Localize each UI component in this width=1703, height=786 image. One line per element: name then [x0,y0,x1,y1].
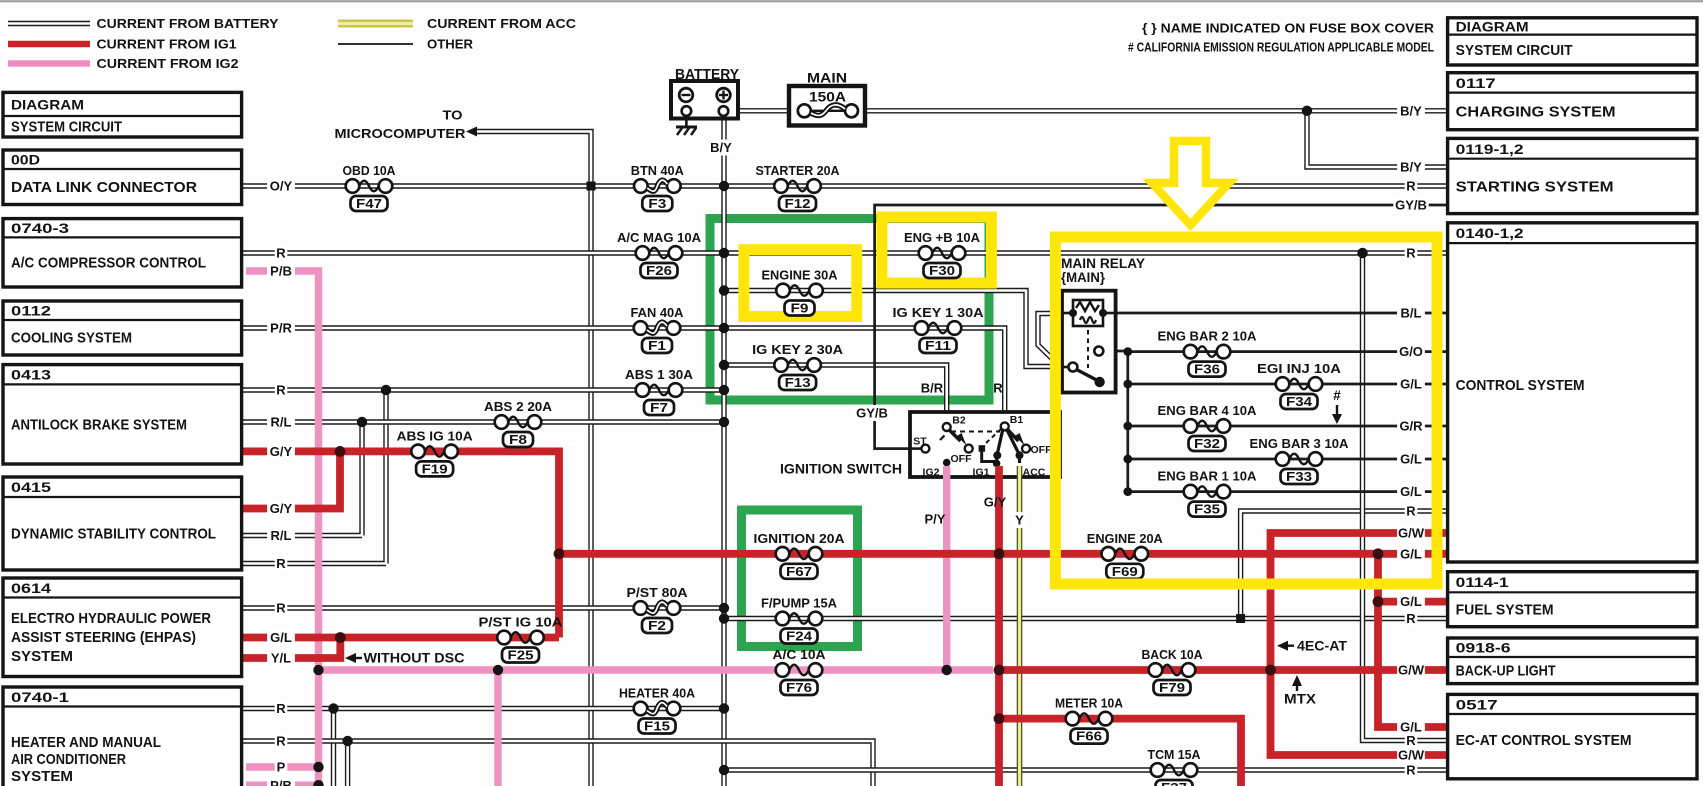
wire F/PUMP - R fuel (y=618.5) [724,616,1448,621]
svg-text:R: R [1406,733,1416,748]
svg-text:IG KEY 1 30A: IG KEY 1 30A [893,305,985,320]
box DIAGRAM / SYSTEM CIRCUIT right [1448,18,1697,65]
svg-text:IG2: IG2 [923,467,940,479]
fuse F1 FAN 40A [631,305,685,353]
junction R fuel/control [1236,614,1245,623]
svg-text:F79: F79 [1159,680,1185,695]
fuse F7 ABS 1 30A [625,367,694,415]
svg-text:F37: F37 [1161,780,1187,786]
svg-text:F2: F2 [648,618,666,633]
svg-text:EGI INJ 10A: EGI INJ 10A [1257,361,1342,376]
fuse F35 ENG BAR 1 10A [1158,469,1258,517]
yellow highlight box ENGINE 30A [744,250,857,317]
svg-text:F66: F66 [1076,729,1102,744]
wire GY/B starter signal [875,205,1448,449]
svg-text:TCM 15A: TCM 15A [1148,747,1202,762]
fuse F30 ENG +B 10A [904,230,981,278]
junction B/Y charging branch [1302,106,1312,116]
svg-text:WITHOUT DSC: WITHOUT DSC [364,651,465,666]
svg-text:P/ST 80A: P/ST 80A [627,585,689,600]
wire P/B from A/C compressor control, vertical x=318.5 [246,271,319,786]
wire pink bus y=670 [319,666,994,673]
wire MAIN fuse to charging B/Y [865,108,1448,113]
wire R to EC-AT via x=1362.5 [1363,253,1448,741]
ground [676,116,697,135]
svg-text:F30: F30 [929,263,955,278]
svg-text:F9: F9 [791,301,809,316]
svg-text:METER 10A: METER 10A [1055,696,1124,711]
right wire labels [1397,103,1425,119]
svg-text:AIR CONDITIONER: AIR CONDITIONER [11,751,126,768]
svg-text:MAIN: MAIN [807,70,847,86]
box 0614 EHPAS SYSTEM [3,578,242,677]
junction R heater branch [328,703,338,713]
green highlight box (ENGINE 30A / IG KEY group) [710,219,989,401]
wire Y/L EHPAS [243,638,340,659]
wire main relay B/L output [1103,312,1448,315]
svg-text:R: R [276,246,286,261]
svg-text:FAN 40A: FAN 40A [631,305,685,320]
fuse F15 HEATER 40A [619,686,696,734]
wire battery to MAIN fuse [738,108,789,113]
box 0517 EC-AT CONTROL SYSTEM [1448,694,1697,778]
label WITHOUT DSC with arrow [345,653,356,663]
svg-text:ASSIST STEERING (EHPAS): ASSIST STEERING (EHPAS) [11,629,196,646]
svg-text:P/B: P/B [270,778,292,786]
yellow highlight box ENG +B [882,217,992,283]
svg-text:P: P [277,760,286,775]
wire G/L EHPAS - P/ST IG [243,634,559,642]
svg-text:ENG BAR 2 10A: ENG BAR 2 10A [1158,329,1258,344]
yellow arrow [1152,141,1229,225]
svg-text:A/C MAG 10A: A/C MAG 10A [617,230,702,245]
wire TCM - R EC-AT (y=770) [724,767,1448,772]
wire G/L net x=1378 [1378,554,1448,727]
svg-text:R: R [1406,246,1416,261]
svg-text:P/B: P/B [270,264,292,279]
wire IG1 bus y=553.8 to G/L control [559,550,1448,558]
svg-text:ELECTRO HYDRAULIC POWER: ELECTRO HYDRAULIC POWER [11,610,211,627]
svg-text:GY/B: GY/B [856,406,888,421]
green highlight box (IGNITION / F-PUMP group) [742,510,858,647]
svg-text:P/ST IG 10A: P/ST IG 10A [479,615,564,630]
label 4EC-AT with arrow [1277,641,1288,651]
svg-text:0140-1,2: 0140-1,2 [1456,225,1524,241]
junction R/L to DSC [357,417,367,427]
dashed link B2-B1 [951,431,1000,433]
svg-text:GY/B: GY/B [1395,198,1427,213]
svg-text:IG1: IG1 [973,467,990,479]
wire P/R - FAN - IG KEY 1 - B1 [243,328,1005,422]
wire R/L - ABS 2 (y=422) [243,419,724,424]
lever B1 to IG1 [998,429,1004,454]
svg-text:BACK 10A: BACK 10A [1142,647,1204,662]
label MTX with arrow [1292,675,1302,686]
svg-text:OTHER: OTHER [427,37,474,52]
svg-text:F/PUMP 15A: F/PUMP 15A [761,596,838,611]
svg-text:F3: F3 [648,196,666,211]
svg-text:ENGINE 30A: ENGINE 30A [762,268,839,283]
svg-text:MTX: MTX [1284,692,1316,707]
fuse F66 METER 10A [1055,696,1124,744]
svg-text:Y: Y [1015,513,1024,528]
wire TO MICROCOMPUTER branch [476,132,591,786]
box 0112 COOLING SYSTEM [3,301,242,355]
svg-text:DIAGRAM: DIAGRAM [11,96,84,112]
svg-text:EC-AT CONTROL SYSTEM: EC-AT CONTROL SYSTEM [1456,732,1632,749]
legend current from IG2 [8,60,90,67]
svg-text:IGNITION 20A: IGNITION 20A [754,531,846,546]
svg-text:0740-1: 0740-1 [11,689,69,705]
svg-text:F13: F13 [785,375,811,390]
wire IG1 from ignition switch x=999 [995,466,1003,786]
svg-text:IGNITION SWITCH: IGNITION SWITCH [780,461,902,477]
wire main relay coil feed [1038,314,1060,364]
box 0114-1 FUEL SYSTEM [1448,572,1697,627]
terminal IG2 [943,459,951,467]
wire R branch down x=333.5 [331,709,336,786]
terminal B1 [1001,422,1009,430]
terminal ST [910,447,921,450]
svg-text:SYSTEM: SYSTEM [11,768,73,785]
wire ENG BAR 4 - G/R [1128,425,1448,428]
svg-text:G/L: G/L [1400,452,1422,467]
yellow highlight box control group [1055,237,1437,584]
svg-text:F36: F36 [1194,362,1220,377]
terminal IG1 [993,460,1001,468]
svg-text:ST: ST [913,436,927,448]
svg-text:0918-6: 0918-6 [1456,640,1511,656]
svg-text:BACK-UP LIGHT: BACK-UP LIGHT [1456,663,1556,680]
svg-text:A/C COMPRESSOR CONTROL: A/C COMPRESSOR CONTROL [11,254,206,271]
svg-text:G/Y: G/Y [270,444,293,459]
svg-text:G/L: G/L [1400,484,1422,499]
svg-text:G/O: G/O [1399,344,1423,359]
junction dots on B/Y bus [719,181,729,191]
wire G/W net x=1270.5 [1271,533,1448,755]
svg-text:ANTILOCK BRAKE SYSTEM: ANTILOCK BRAKE SYSTEM [11,416,187,433]
svg-text:MICROCOMPUTER: MICROCOMPUTER [335,126,467,141]
wire R branch to DSC [243,390,386,564]
svg-text:ABS 2 20A: ABS 2 20A [484,399,553,414]
box 0918-6 BACK-UP LIGHT [1448,638,1697,684]
junction dots red [335,446,346,457]
fuse F26 A/C MAG 10A [617,230,702,278]
legend current from ACC [338,20,413,28]
svg-text:0413: 0413 [11,367,51,383]
wire R - ABS 1 (y=390) [243,387,724,392]
svg-text:G/L: G/L [270,630,292,645]
svg-text:DIAGRAM: DIAGRAM [1456,18,1529,34]
svg-text:STARTING SYSTEM: STARTING SYSTEM [1456,178,1614,195]
fuse F3 BTN 40A [631,163,685,211]
svg-text:0740-3: 0740-3 [11,220,69,236]
wire R branch to control (x=1240.6) [1241,511,1448,619]
relay MAIN RELAY [1061,256,1145,393]
svg-text:MAIN RELAY: MAIN RELAY [1061,256,1145,271]
svg-text:F34: F34 [1286,394,1313,409]
svg-text:F19: F19 [422,461,448,476]
box 0117 CHARGING SYSTEM [1448,73,1697,130]
svg-text:CURRENT FROM BATTERY: CURRENT FROM BATTERY [97,16,279,31]
box 0140-1,2 CONTROL SYSTEM [1448,223,1697,562]
svg-text:O/Y: O/Y [270,179,293,194]
svg-text:F69: F69 [1112,564,1138,579]
svg-text:R: R [1406,179,1416,194]
svg-text:ABS 1 30A: ABS 1 30A [625,367,694,382]
svg-text:0517: 0517 [1456,696,1498,712]
wire O/Y - OBD - BTN - STARTER - R (y=186) [243,183,1448,188]
svg-text:F8: F8 [509,432,527,447]
svg-text:0119-1,2: 0119-1,2 [1456,141,1524,157]
svg-text:ENG BAR 4 10A: ENG BAR 4 10A [1158,403,1258,418]
terminal B2 [943,423,951,431]
svg-text:HEATER AND MANUAL: HEATER AND MANUAL [11,734,161,751]
svg-text:G/Y: G/Y [984,495,1007,510]
box 00D DATA LINK CONNECTOR [3,150,242,205]
svg-text:BTN 40A: BTN 40A [631,163,685,178]
box 0740-3 A/C COMPRESSOR CONTROL [3,219,242,287]
svg-text:F12: F12 [785,196,811,211]
svg-text:CURRENT FROM ACC: CURRENT FROM ACC [427,16,577,31]
svg-text:G/L: G/L [1400,546,1422,561]
svg-text:F76: F76 [786,680,812,695]
wire G/Y branch to DSC [243,451,340,508]
battery [671,66,739,119]
svg-text:F25: F25 [508,648,534,663]
wire P stub [246,763,319,770]
svg-text:IG KEY 2 30A: IG KEY 2 30A [752,342,844,357]
fuse F34 EGI INJ 10A [1257,361,1342,409]
svg-text:ABS IG 10A: ABS IG 10A [397,429,474,444]
svg-text:F15: F15 [644,719,670,734]
wire R/L branch to DSC [243,422,362,536]
fuse F67 IGNITION 20A [754,531,846,579]
svg-text:ACC: ACC [1023,467,1046,479]
wire ENG BAR 2 - G/O [1128,350,1448,353]
fuse F36 ENG BAR 2 10A [1158,329,1258,377]
svg-text:HEATER 40A: HEATER 40A [619,686,696,701]
wire P/B stub bottom [246,782,319,786]
svg-text:0614: 0614 [11,580,51,596]
svg-text:DATA LINK CONNECTOR: DATA LINK CONNECTOR [11,179,197,196]
box 0415 DYNAMIC STABILITY CONTROL [3,477,242,570]
svg-text:R: R [276,383,286,398]
svg-text:SYSTEM: SYSTEM [11,648,73,665]
svg-text:OBD 10A: OBD 10A [343,163,397,178]
svg-text:F32: F32 [1194,436,1220,451]
wire pink branch x=498 [494,670,501,786]
wire R - P/ST 80A (y=608) [243,605,724,610]
svg-text:CONTROL SYSTEM: CONTROL SYSTEM [1456,377,1585,394]
svg-text:Y/L: Y/L [271,651,291,666]
svg-text:ENGINE 20A: ENGINE 20A [1087,531,1164,546]
junction microcomputer branch [587,182,596,191]
svg-text:G/R: G/R [1399,419,1423,434]
switch IGNITION SWITCH [780,412,1060,479]
wire EGI INJ - G/L [1128,383,1448,386]
wire B/Y to starting system [1307,111,1448,167]
junction dots pink [313,665,323,675]
svg-text:B2: B2 [952,415,966,427]
svg-text:00D: 00D [11,152,40,168]
svg-text:0117: 0117 [1456,75,1496,91]
svg-text:# CALIFORNIA EMISSION REGULATI: # CALIFORNIA EMISSION REGULATION APPLICA… [1128,40,1434,55]
wire METER 10A line [999,719,1241,786]
lever B1 to OFF right [1007,429,1019,441]
svg-text:R: R [993,381,1003,396]
svg-text:CURRENT FROM IG2: CURRENT FROM IG2 [97,56,239,71]
svg-text:0114-1: 0114-1 [1456,574,1509,590]
svg-text:F67: F67 [786,564,812,579]
svg-text:STARTER 20A: STARTER 20A [756,163,841,178]
wire R - HEATER (y=708.5) [243,706,724,711]
legend current from IG1 [8,41,90,48]
box 0413 ANTILOCK BRAKE SYSTEM [3,365,242,464]
fuse F32 ENG BAR 4 10A [1158,403,1258,451]
svg-text:SYSTEM CIRCUIT: SYSTEM CIRCUIT [11,119,122,136]
svg-text:ENG +B 10A: ENG +B 10A [904,230,981,245]
svg-text:G/W: G/W [1398,663,1425,678]
svg-text:{MAIN}: {MAIN} [1061,270,1106,285]
svg-text:FUEL SYSTEM: FUEL SYSTEM [1456,602,1554,619]
fuse F25 P/ST IG 10A [479,615,564,663]
svg-text:G/L: G/L [1400,377,1422,392]
fuse F12 STARTER 20A [756,163,841,211]
svg-text:B/Y: B/Y [710,140,732,155]
wire R branch down x=347.6 [345,741,350,786]
fuse F24 F/PUMP 15A [761,596,838,644]
fuse F13 IG KEY 2 30A [752,342,844,390]
svg-text:COOLING SYSTEM: COOLING SYSTEM [11,330,132,347]
svg-text:ENG BAR 3 10A: ENG BAR 3 10A [1250,436,1350,451]
fuse F8 ABS 2 20A [484,399,553,447]
svg-text:B/Y: B/Y [1400,160,1422,175]
svg-text:F24: F24 [786,629,813,644]
svg-text:R/L: R/L [271,415,292,430]
contact OFF left [965,445,973,453]
fuse F69 ENGINE 20A [1087,531,1164,579]
svg-text:F47: F47 [356,196,382,211]
fuse F9 ENGINE 30A [762,268,839,316]
lever B1 to ACC [1007,429,1019,453]
junction R second branch [342,736,352,746]
wire ENGINE 30A line to main relay [724,291,1062,367]
svg-text:P/Y: P/Y [925,512,946,527]
wire ENG BAR 1 - G/L [1128,490,1448,493]
svg-text:F11: F11 [925,338,951,353]
wire ENG BAR distribution bus x=1127.8 [1126,352,1129,492]
svg-text:OFF: OFF [951,453,973,465]
svg-text:#: # [1333,388,1341,403]
svg-text:R: R [1406,611,1416,626]
svg-text:B/Y: B/Y [1400,103,1422,118]
box 0740-1 HEATER AND MANUAL A/C SYSTEM [3,687,242,786]
fuse F79 BACK 10A [1142,647,1204,695]
svg-text:R: R [276,556,286,571]
legend current from battery [8,21,90,26]
fuse F11 IG KEY 1 30A [893,305,985,353]
svg-text:G/W: G/W [1398,748,1425,763]
svg-text:4EC-AT: 4EC-AT [1297,638,1348,653]
fuse MAIN 150A [789,70,865,126]
svg-text:R: R [1406,763,1416,778]
wire battery B/Y bus vertical x=724 [721,114,726,786]
fuse F47 OBD 10A [343,163,397,211]
dashed B1 to IG2 side square [985,429,1001,444]
wire P/Y from IG2 [943,466,950,670]
lever B2 arrow [949,430,961,442]
svg-text:R: R [1406,504,1416,519]
fuse F76 A/C 10A [773,647,827,695]
svg-text:F7: F7 [650,400,668,415]
wire Y from ACC [1017,466,1023,786]
svg-text:B1: B1 [1010,414,1024,426]
svg-text:0112: 0112 [11,303,51,319]
legend other [338,43,413,45]
wire IG KEY 2 - B2 (B/R) [724,365,947,423]
left wire labels [267,178,295,194]
junction R to EC-AT branch [1357,248,1367,258]
svg-text:R: R [276,734,286,749]
wire relay switch output to fuse bus [1103,350,1128,353]
svg-text:P/R: P/R [270,321,292,336]
svg-text:R/L: R/L [271,528,292,543]
svg-text:{ } NAME INDICATED ON FUSE BOX: { } NAME INDICATED ON FUSE BOX COVER [1142,21,1435,36]
wire ENG BAR 3 - G/L [1128,458,1448,461]
wire R / A-C MAG - ENG+B - R control (y=253) [243,250,1448,255]
svg-text:ENG BAR 1 10A: ENG BAR 1 10A [1158,469,1258,484]
svg-text:B/R: B/R [921,381,944,396]
svg-text:CURRENT FROM IG1: CURRENT FROM IG1 [97,37,237,52]
fuse F2 P/ST 80A [627,585,689,633]
wire G/Y antilock - ABS IG - corner x=559 [243,451,559,637]
svg-text:G/Y: G/Y [270,501,293,516]
fuse F37 TCM 15A [1148,747,1202,786]
svg-text:B/L: B/L [1401,306,1422,321]
junction dots ENG BAR bus [1123,347,1132,356]
fuse F19 ABS IG 10A [397,429,474,477]
svg-text:F1: F1 [648,338,666,353]
svg-text:150A: 150A [809,89,846,105]
svg-text:G/L: G/L [1400,594,1422,609]
box DIAGRAM / SYSTEM CIRCUIT [3,92,242,137]
svg-text:G/W: G/W [1398,526,1425,541]
svg-text:0415: 0415 [11,479,51,495]
svg-text:CHARGING SYSTEM: CHARGING SYSTEM [1456,103,1616,120]
svg-text:F35: F35 [1194,502,1220,517]
label Y acc [1012,512,1028,528]
label GY/B vertical [854,405,890,421]
svg-text:R: R [276,701,286,716]
box 0119-1,2 STARTING SYSTEM [1448,138,1697,213]
label B/Y battery bus [707,140,735,156]
svg-text:R: R [276,601,286,616]
svg-text:TO: TO [443,108,463,123]
svg-text:DYNAMIC STABILITY CONTROL: DYNAMIC STABILITY CONTROL [11,526,216,543]
junction R to DSC [381,385,391,395]
fuse F33 ENG BAR 3 10A [1250,436,1350,484]
svg-text:SYSTEM CIRCUIT: SYSTEM CIRCUIT [1456,42,1573,59]
svg-text:F26: F26 [646,263,672,278]
wire BACK 10A - G/W back-up light [999,666,1448,674]
svg-text:F33: F33 [1286,469,1312,484]
svg-text:A/C 10A: A/C 10A [773,647,827,662]
svg-text:OFF: OFF [1031,444,1053,456]
wire R heater second (y=741) [243,741,873,786]
